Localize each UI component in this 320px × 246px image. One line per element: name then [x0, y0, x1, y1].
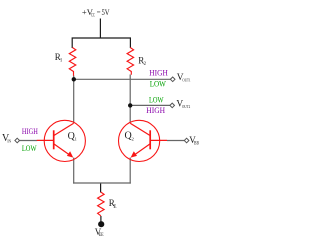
svg-text:LOW: LOW — [149, 95, 164, 104]
svg-text:HIGH: HIGH — [149, 68, 168, 77]
svg-text:5V: 5V — [102, 7, 111, 17]
svg-text:HIGH: HIGH — [22, 127, 38, 136]
svg-text:HIGH: HIGH — [146, 106, 165, 115]
svg-text:LOW: LOW — [22, 144, 37, 153]
svg-text:+VCC: +VCC — [82, 7, 95, 18]
svg-text:=: = — [97, 8, 101, 16]
svg-text:LOW: LOW — [150, 79, 167, 88]
